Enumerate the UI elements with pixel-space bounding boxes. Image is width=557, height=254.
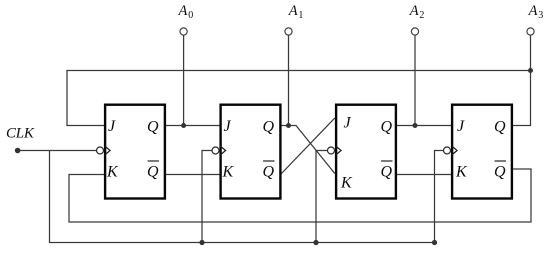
flip-flop FF3 box (336, 105, 396, 199)
wire Q3 to J4 (396, 125, 452, 127)
svg-text:A: A (528, 3, 538, 19)
svg-text:CLK: CLK (6, 126, 35, 142)
svg-text:K: K (222, 164, 235, 181)
svg-text:Q: Q (381, 119, 393, 136)
wire feedback Q-bar4 to K1 (bottom bus) (69, 169, 531, 222)
wire Q4 output to feedback node (512, 71, 530, 126)
node CLK terminal (15, 148, 21, 154)
svg-text:K: K (340, 175, 353, 192)
svg-text:2: 2 (419, 10, 424, 21)
label FF1 pin Q-bar (147, 161, 159, 181)
svg-text:K: K (455, 164, 468, 181)
svg-text:Q: Q (147, 164, 159, 181)
junction clock bus FF4 (432, 240, 437, 245)
wire Q1 to J2 (165, 125, 221, 127)
flip-flop FF2 clock chevron (220, 146, 225, 155)
svg-text:A: A (178, 3, 188, 19)
node A1 terminal (285, 28, 292, 128)
wire feedback Q4 to J1 (top line) (67, 71, 531, 126)
flip-flop FF3 clock bubble (328, 147, 335, 154)
label A3 (528, 3, 544, 21)
svg-text:J: J (457, 118, 465, 135)
label FF2 pin Q-bar (263, 161, 275, 181)
label A1 (288, 3, 304, 21)
svg-text:A: A (288, 3, 298, 19)
junction clock bus FF2 (199, 240, 204, 245)
wire CLK input line (18, 150, 97, 152)
label A0 (178, 3, 194, 21)
wire clock riser FF4 (435, 151, 444, 243)
node A2 terminal (411, 28, 418, 128)
junction clock bus FF3 (313, 240, 318, 245)
wire clock riser FF2 (202, 151, 212, 243)
label FF4 pin Q-bar (494, 161, 506, 181)
svg-text:Q: Q (381, 164, 393, 181)
svg-text:A: A (409, 3, 419, 19)
label FF3 pin Q-bar (381, 161, 393, 181)
svg-text:K: K (106, 164, 119, 181)
wire Q-bar3 to K4 (396, 174, 452, 176)
svg-text:3: 3 (538, 10, 543, 21)
wire Q2 to K3 (crossing diagonal) (281, 126, 335, 174)
svg-text:Q: Q (147, 119, 159, 136)
svg-text:Q: Q (494, 164, 506, 181)
wire clock bus (branch down and bottom distribution) (50, 151, 435, 243)
flip-flop FF2 clock bubble (212, 147, 219, 154)
flip-flop FF3 clock chevron (336, 146, 341, 155)
label A2 (409, 3, 425, 21)
flip-flop FF4 clock bubble (444, 147, 451, 154)
svg-text:0: 0 (188, 10, 193, 21)
wire Q-bar1 to K2 (165, 174, 221, 176)
svg-text:Q: Q (263, 164, 275, 181)
svg-text:J: J (344, 115, 352, 132)
svg-text:Q: Q (263, 119, 275, 136)
flip-flop FF2 box (221, 105, 281, 199)
svg-text:Q: Q (494, 119, 506, 136)
wire clock riser FF3 (316, 151, 328, 243)
wire Q-bar2 to J3 (crossing diagonal) (281, 118, 335, 175)
flip-flop FF1 box (105, 105, 165, 199)
flip-flop FF1 clock bubble (97, 147, 104, 154)
flip-flop FF4 clock chevron (452, 146, 457, 155)
node A0 terminal (180, 28, 187, 128)
svg-text:J: J (224, 118, 232, 135)
svg-text:J: J (108, 118, 116, 135)
node A3 terminal (527, 28, 534, 73)
svg-text:1: 1 (298, 10, 303, 21)
flip-flop FF4 box (452, 105, 512, 199)
flip-flop FF1 clock chevron (105, 146, 110, 155)
